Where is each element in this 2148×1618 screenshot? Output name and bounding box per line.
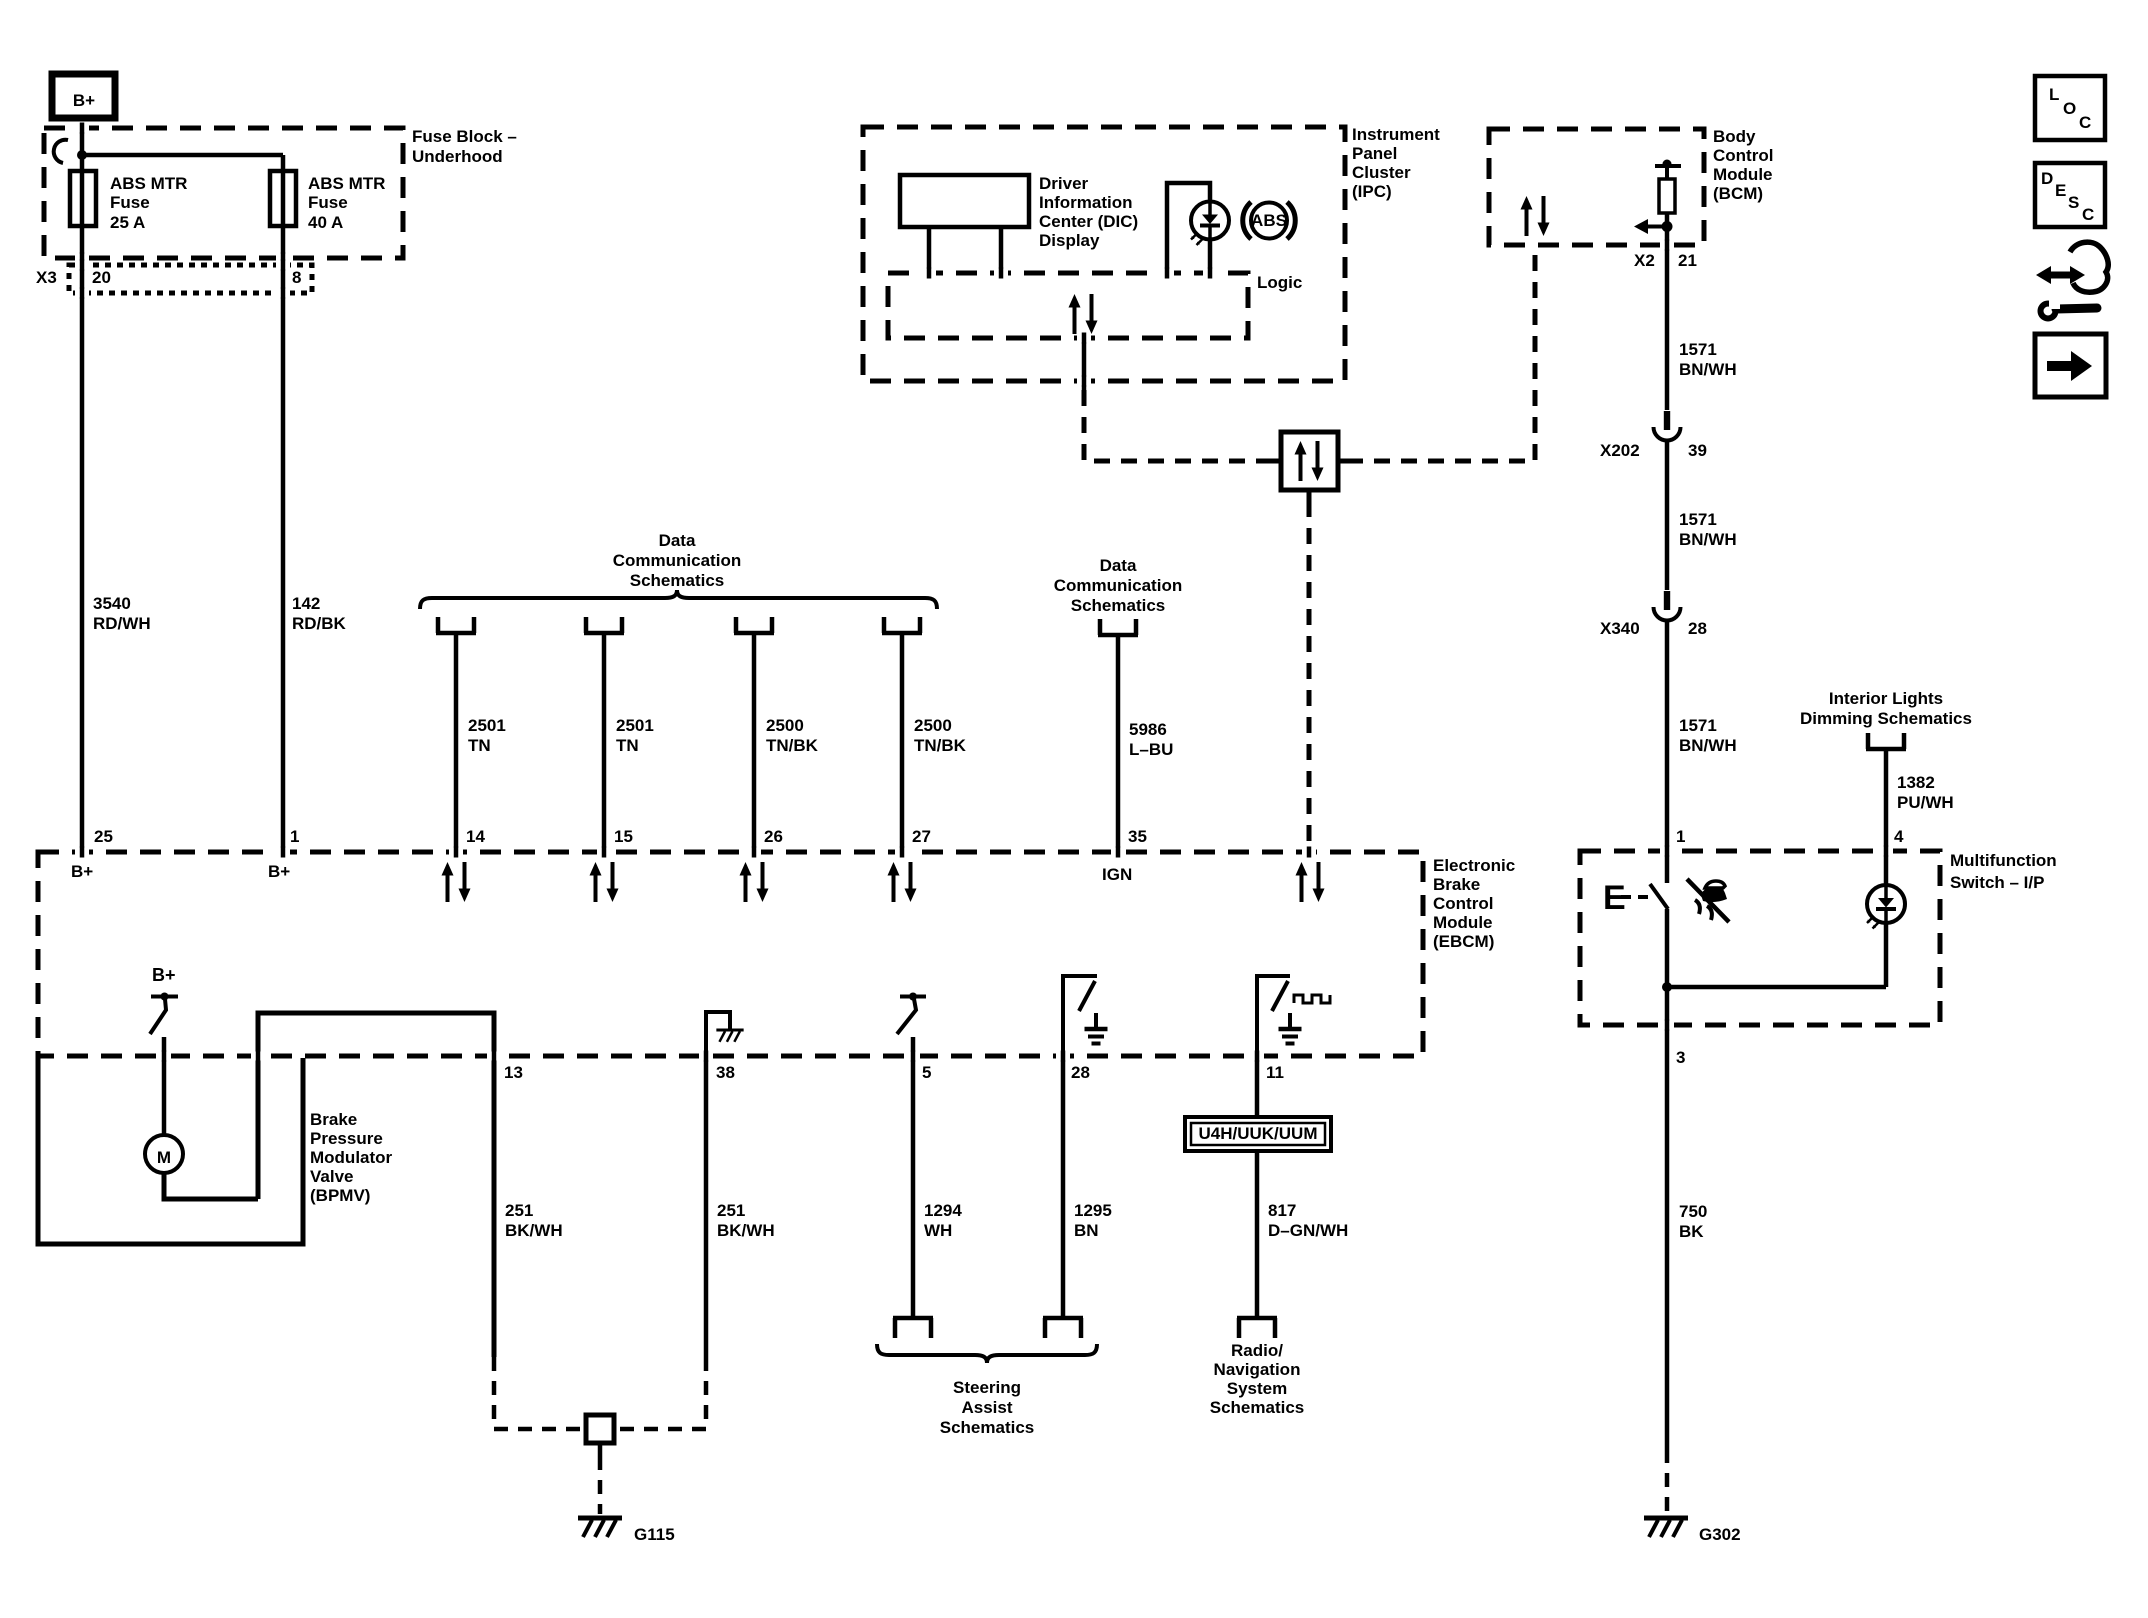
svg-text:Steering: Steering (953, 1378, 1021, 1397)
svg-text:25 A: 25 A (110, 213, 145, 232)
svg-text:B+: B+ (71, 862, 93, 881)
svg-text:2500: 2500 (914, 716, 952, 735)
svg-text:M: M (157, 1148, 171, 1167)
svg-text:Data: Data (1100, 556, 1137, 575)
svg-text:TN: TN (468, 736, 491, 755)
svg-text:Data: Data (659, 531, 696, 550)
svg-text:1: 1 (290, 827, 299, 846)
svg-text:8: 8 (292, 268, 301, 287)
svg-text:3: 3 (1676, 1048, 1685, 1067)
svg-text:1571: 1571 (1679, 716, 1717, 735)
svg-text:PU/WH: PU/WH (1897, 793, 1954, 812)
svg-text:3540: 3540 (93, 594, 131, 613)
svg-text:S: S (2068, 193, 2079, 212)
svg-text:E: E (2055, 181, 2066, 200)
svg-text:B+: B+ (268, 862, 290, 881)
svg-text:X202: X202 (1600, 441, 1640, 460)
svg-text:21: 21 (1678, 251, 1697, 270)
svg-text:2501: 2501 (468, 716, 506, 735)
svg-text:25: 25 (94, 827, 113, 846)
svg-text:Cluster: Cluster (1352, 163, 1411, 182)
svg-text:Interior Lights: Interior Lights (1829, 689, 1943, 708)
svg-text:Panel: Panel (1352, 144, 1397, 163)
svg-text:D–GN/WH: D–GN/WH (1268, 1221, 1348, 1240)
svg-text:(EBCM): (EBCM) (1433, 932, 1494, 951)
svg-text:B+: B+ (152, 965, 176, 985)
svg-text:Driver: Driver (1039, 174, 1089, 193)
svg-text:1571: 1571 (1679, 510, 1717, 529)
svg-text:Logic: Logic (1257, 273, 1302, 292)
svg-text:Brake: Brake (310, 1110, 357, 1129)
svg-text:O: O (2063, 99, 2076, 118)
svg-text:Schematics: Schematics (940, 1418, 1035, 1437)
svg-text:Multifunction: Multifunction (1950, 851, 2057, 870)
svg-text:20: 20 (92, 268, 111, 287)
svg-text:Schematics: Schematics (630, 571, 725, 590)
svg-text:Fuse: Fuse (308, 193, 348, 212)
svg-text:Navigation: Navigation (1214, 1360, 1301, 1379)
svg-text:Assist: Assist (961, 1398, 1012, 1417)
svg-text:BK/WH: BK/WH (717, 1221, 775, 1240)
svg-text:Body: Body (1713, 127, 1756, 146)
svg-text:Display: Display (1039, 231, 1100, 250)
svg-text:2500: 2500 (766, 716, 804, 735)
svg-text:Control: Control (1433, 894, 1493, 913)
svg-text:1294: 1294 (924, 1201, 962, 1220)
svg-text:X340: X340 (1600, 619, 1640, 638)
svg-text:L: L (2049, 85, 2059, 104)
svg-text:2501: 2501 (616, 716, 654, 735)
svg-text:ABS MTR: ABS MTR (110, 174, 187, 193)
svg-text:Communication: Communication (613, 551, 741, 570)
svg-text:5: 5 (922, 1063, 931, 1082)
svg-text:BN/WH: BN/WH (1679, 736, 1737, 755)
svg-text:C: C (2079, 113, 2091, 132)
svg-text:BN/WH: BN/WH (1679, 530, 1737, 549)
svg-text:13: 13 (504, 1063, 523, 1082)
svg-text:B+: B+ (73, 91, 95, 110)
svg-text:Valve: Valve (310, 1167, 354, 1186)
svg-text:Communication: Communication (1054, 576, 1182, 595)
svg-text:ABS MTR: ABS MTR (308, 174, 385, 193)
svg-text:38: 38 (716, 1063, 735, 1082)
svg-text:System: System (1227, 1379, 1287, 1398)
svg-text:U4H/UUK/UUM: U4H/UUK/UUM (1199, 1124, 1318, 1143)
svg-text:Fuse: Fuse (110, 193, 150, 212)
svg-text:251: 251 (717, 1201, 745, 1220)
svg-text:Underhood: Underhood (412, 147, 503, 166)
svg-text:15: 15 (614, 827, 633, 846)
svg-text:28: 28 (1071, 1063, 1090, 1082)
svg-text:28: 28 (1688, 619, 1707, 638)
svg-text:Information: Information (1039, 193, 1133, 212)
svg-text:C: C (2082, 205, 2094, 224)
svg-text:Schematics: Schematics (1210, 1398, 1305, 1417)
svg-text:Module: Module (1433, 913, 1493, 932)
svg-text:G302: G302 (1699, 1525, 1741, 1544)
svg-text:WH: WH (924, 1221, 952, 1240)
svg-text:X2: X2 (1634, 251, 1655, 270)
svg-text:D: D (2041, 169, 2053, 188)
svg-text:(BPMV): (BPMV) (310, 1186, 370, 1205)
svg-text:(IPC): (IPC) (1352, 182, 1392, 201)
svg-text:Module: Module (1713, 165, 1773, 184)
svg-text:35: 35 (1128, 827, 1147, 846)
svg-text:Control: Control (1713, 146, 1773, 165)
svg-text:Fuse Block –: Fuse Block – (412, 127, 517, 146)
svg-text:BK: BK (1679, 1222, 1704, 1241)
svg-text:Pressure: Pressure (310, 1129, 383, 1148)
svg-text:1382: 1382 (1897, 773, 1935, 792)
svg-text:11: 11 (1266, 1063, 1284, 1082)
svg-text:14: 14 (466, 827, 485, 846)
svg-text:Schematics: Schematics (1071, 596, 1166, 615)
svg-text:RD/WH: RD/WH (93, 614, 151, 633)
svg-text:40 A: 40 A (308, 213, 343, 232)
svg-text:Radio/: Radio/ (1231, 1341, 1283, 1360)
svg-text:Instrument: Instrument (1352, 125, 1440, 144)
svg-text:1: 1 (1676, 827, 1685, 846)
svg-text:817: 817 (1268, 1201, 1296, 1220)
svg-text:TN/BK: TN/BK (914, 736, 967, 755)
svg-text:Center (DIC): Center (DIC) (1039, 212, 1138, 231)
svg-text:1571: 1571 (1679, 340, 1717, 359)
svg-text:Switch – I/P: Switch – I/P (1950, 873, 2044, 892)
svg-text:142: 142 (292, 594, 320, 613)
svg-text:Brake: Brake (1433, 875, 1480, 894)
svg-text:251: 251 (505, 1201, 533, 1220)
svg-text:4: 4 (1894, 827, 1904, 846)
svg-text:Electronic: Electronic (1433, 856, 1515, 875)
svg-text:BN: BN (1074, 1221, 1099, 1240)
svg-text:Dimming Schematics: Dimming Schematics (1800, 709, 1972, 728)
svg-text:X3: X3 (36, 268, 57, 287)
svg-text:ABS: ABS (1251, 211, 1287, 230)
svg-text:BK/WH: BK/WH (505, 1221, 563, 1240)
svg-text:RD/BK: RD/BK (292, 614, 347, 633)
svg-text:TN: TN (616, 736, 639, 755)
svg-text:IGN: IGN (1102, 865, 1132, 884)
svg-text:27: 27 (912, 827, 931, 846)
svg-text:750: 750 (1679, 1202, 1707, 1221)
svg-text:TN/BK: TN/BK (766, 736, 819, 755)
svg-text:Modulator: Modulator (310, 1148, 393, 1167)
svg-text:26: 26 (764, 827, 783, 846)
svg-text:5986: 5986 (1129, 720, 1167, 739)
svg-text:G115: G115 (634, 1525, 675, 1544)
svg-text:1295: 1295 (1074, 1201, 1112, 1220)
svg-text:39: 39 (1688, 441, 1707, 460)
svg-text:(BCM): (BCM) (1713, 184, 1763, 203)
svg-text:L–BU: L–BU (1129, 740, 1173, 759)
svg-text:BN/WH: BN/WH (1679, 360, 1737, 379)
